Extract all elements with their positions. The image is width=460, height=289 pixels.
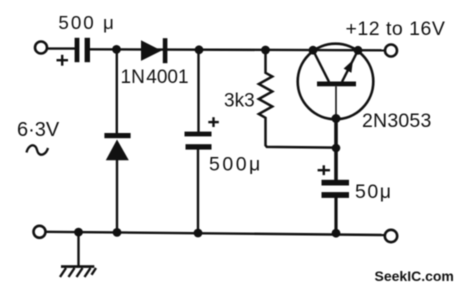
svg-text:+12 to 16V: +12 to 16V <box>346 18 446 40</box>
svg-text:3k3: 3k3 <box>224 91 255 112</box>
svg-text:1N4001: 1N4001 <box>121 67 189 88</box>
svg-text:500 μ: 500 μ <box>58 12 115 33</box>
svg-text:SeekIC.com: SeekIC.com <box>375 268 454 284</box>
svg-text:500μ: 500μ <box>209 154 263 176</box>
svg-text:2N3053: 2N3053 <box>362 110 432 132</box>
svg-text:6·3V: 6·3V <box>17 119 60 141</box>
svg-text:50μ: 50μ <box>355 181 392 203</box>
